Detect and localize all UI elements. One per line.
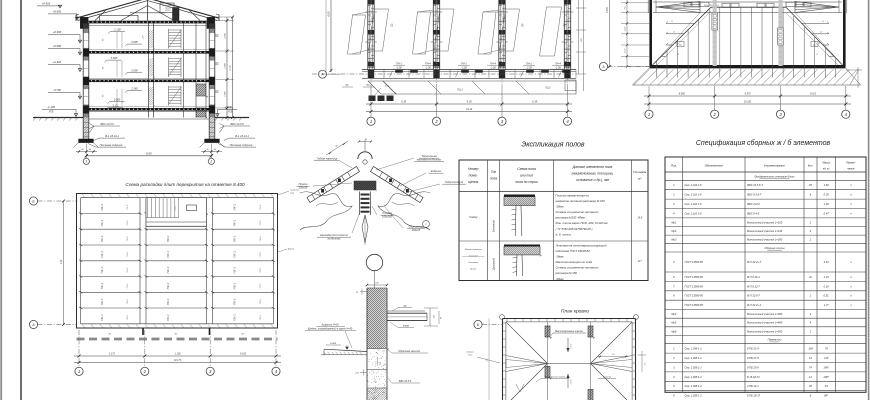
svg-text:19.14: 19.14 — [466, 108, 473, 111]
svg-text:Песчаная подушка: Песчаная подушка — [230, 143, 253, 147]
svg-text:6.38: 6.38 — [401, 101, 406, 104]
svg-text:ПК-1: ПК-1 — [233, 235, 237, 242]
svg-text:поме-: поме- — [469, 174, 479, 178]
rafter plan top funnel shapes — [656, 2, 700, 13]
svg-text:-2.08: -2.08 — [461, 66, 467, 69]
svg-text:ПК-1: ПК-1 — [233, 219, 237, 226]
ridge post with rungs — [359, 192, 361, 216]
svg-text:Тип: Тип — [491, 170, 497, 174]
rafter bar fine hatch left — [312, 194, 315, 199]
svg-text:подоснове ГОСТ 18108-80: подоснове ГОСТ 18108-80 — [556, 249, 591, 253]
rafter bar bolt squares left — [321, 189, 324, 193]
chimney with note text — [160, 3, 174, 13]
svg-text:щения: щения — [468, 180, 479, 184]
svg-text:раствора М 150: раствора М 150 — [555, 271, 578, 275]
svg-text:ПК-2: ПК-2 — [260, 267, 262, 273]
svg-text:ПК-2: ПК-2 — [260, 283, 262, 289]
svg-text:14,6: 14,6 — [637, 217, 642, 220]
ground line left — [33, 117, 83, 119]
ridge bolt plate dark block — [354, 181, 376, 190]
svg-text:Гидроизоляция: Гидроизоляция — [445, 180, 464, 184]
svg-text:Сер. 1.116.1-8: Сер. 1.116.1-8 — [685, 193, 703, 197]
svg-text:ПК-1: ПК-1 — [100, 267, 104, 274]
svg-text:ПН-1: ПН-1 — [526, 63, 532, 66]
svg-text:9 ПБ 21-8: 9 ПБ 21-8 — [747, 347, 759, 351]
svg-text:Водосточная труба: Водосточная труба — [545, 376, 567, 379]
svg-text:0.3С: 0.3С — [823, 294, 829, 298]
stair flights — [168, 29, 170, 49]
plan leader lines to walls — [352, 12, 368, 15]
svg-text:Слухов.: Слухов. — [466, 352, 474, 354]
svg-text:1.136: 1.136 — [175, 353, 182, 356]
svg-text:ПК-2: ПК-2 — [260, 204, 262, 210]
svg-text:ПК-2: ПК-2 — [260, 299, 262, 305]
chimney dashed strip on axis 2 — [713, 0, 717, 66]
svg-text:раствора М150: раствора М150 -40мм — [555, 216, 585, 220]
ridge vertical guide line — [364, 140, 366, 152]
svg-text:Спецификация сборных ж / б эле: Спецификация сборных ж / б элементов — [696, 139, 831, 147]
svg-text:2.100: 2.100 — [113, 28, 121, 32]
svg-text:1: 1 — [78, 369, 80, 374]
roof plan hip diagonals — [506, 322, 548, 364]
explication row 1 floor schema icon — [504, 195, 535, 197]
svg-text:-16мм: -16мм — [556, 255, 564, 259]
svg-text:ПН-4: ПН-4 — [425, 63, 431, 66]
plan walls on grid axes — [367, 0, 369, 70]
svg-text:ПК-1: ПК-1 — [100, 282, 104, 289]
svg-text:ПК-2: ПК-2 — [127, 267, 129, 273]
detail callout circle — [366, 254, 382, 270]
rafter vertical lines — [656, 61, 658, 78]
svg-text:ОК-2 ОК-2 ОК-3: ОК-2 ОК-2 ОК-3 — [704, 5, 720, 7]
slab plan grid bubbles 1-4 — [75, 367, 83, 375]
svg-text:-2.08: -2.08 — [396, 66, 402, 69]
svg-text:ПК-1: ПК-1 — [233, 298, 237, 305]
svg-text:Стяжка из цементно-песчаного: Стяжка из цементно-песчаного — [556, 266, 599, 270]
svg-text:накладка на болтах: накладка на болтах — [417, 157, 442, 161]
svg-text:6.600: 6.600 — [607, 6, 609, 12]
roof plan left vertical dimension — [488, 319, 490, 401]
specification rows — [665, 179, 866, 181]
attic floor slab — [82, 21, 213, 24]
svg-text:Б 16 аб-71: Б 16 аб-71 — [747, 375, 760, 379]
svg-text:ПК-1: ПК-1 — [166, 235, 170, 242]
roof slope arrows — [567, 338, 569, 352]
svg-text:0.47: 0.47 — [824, 211, 830, 215]
svg-text:2ст: 2ст — [384, 86, 389, 88]
central top boxes — [722, 3, 730, 7]
svg-text:ПК-2: ПК-2 — [127, 314, 129, 320]
basement interior ground level line — [89, 118, 209, 120]
svg-text:Щебень, утрамбованный в грунт: Щебень, утрамбованный в грунт Н=50 — [308, 327, 353, 330]
roof plan outer rectangle — [503, 318, 636, 320]
stair opening in middle bay — [146, 198, 207, 227]
wall T-marks at bottom edge — [142, 328, 144, 335]
svg-text:1: 1 — [85, 160, 87, 164]
masonry ticks along top and bottom walls — [82, 194, 85, 197]
svg-text:Монолитный участок L=100: Монолитный участок L=100 — [747, 220, 783, 224]
svg-text:УГВ: УГВ — [49, 111, 54, 114]
svg-text:Кол.: Кол. — [808, 164, 814, 168]
svg-text:ПК-2: ПК-2 — [127, 204, 129, 210]
svg-text:ПН-1: ПН-1 — [396, 63, 402, 66]
right rafter bar — [371, 167, 424, 203]
interior door jamb lines — [116, 32, 118, 49]
svg-text:ПН-4: ПН-4 — [555, 63, 561, 66]
right funnel dimension — [598, 356, 628, 358]
section right wall exterior sills — [215, 34, 219, 36]
svg-text:ФБС 24.5.6: ФБС 24.5.6 — [100, 122, 114, 126]
svg-text:ПК-1: ПК-1 — [166, 298, 170, 305]
right exterior wall with hatch — [208, 23, 210, 117]
bottom FBS block hatch — [366, 387, 368, 389]
left exterior wall with hatch — [82, 23, 84, 117]
hip diagonal right — [786, 7, 843, 65]
svg-text:ПК-1: ПК-1 — [100, 235, 104, 242]
rafter plan outer left dimension — [609, 0, 611, 67]
svg-text:Вентиляционные шахты: Вентиляционные шахты — [555, 331, 583, 333]
svg-text:1.173: 1.173 — [109, 353, 116, 356]
slab plan left dimension line — [63, 201, 65, 325]
svg-text:9 ПБ 27-8: 9 ПБ 27-8 — [747, 356, 759, 360]
svg-text:ФБС 24.5.6-Т: ФБС 24.5.6-Т — [747, 183, 763, 187]
svg-text:2.800: 2.800 — [225, 90, 227, 97]
svg-text:Му3: Му3 — [671, 238, 676, 242]
svg-text:ПК-1: ПК-1 — [233, 267, 237, 274]
svg-text:(Д): (Д) — [391, 23, 394, 27]
axis A dash-dot line of plan — [312, 73, 576, 75]
rafter plan left thick wall — [649, 0, 652, 67]
roof chimney crossing right slope — [173, 8, 180, 21]
sheet frame left edge line — [0, 0, 2, 400]
roof truss members — [147, 0, 149, 21]
svg-text:Монолитный участок L=480: Монолитный участок L=480 — [747, 321, 783, 325]
right cornice block — [207, 17, 215, 28]
svg-text:окно: окно — [468, 355, 473, 357]
plan bottom exterior wall band — [362, 69, 576, 71]
porch slabs parallelogram strip — [368, 81, 396, 94]
svg-text:Номер: Номер — [468, 167, 479, 171]
svg-text:5.111: 5.111 — [112, 104, 119, 108]
svg-text:100х100: 100х100 — [382, 214, 393, 218]
svg-text:-2.08: -2.08 — [490, 66, 496, 69]
svg-text:ПК-2: ПК-2 — [127, 283, 129, 289]
svg-text:( ТУ 5762-005-04756799-05 ): ( ТУ 5762-005-04756799-05 ) — [556, 227, 593, 231]
svg-text:Схема пола: Схема пола — [517, 167, 536, 171]
svg-text:Мин. плита марки ПСЖ -200, б=1: Мин. плита марки ПСЖ -200, б=120 мм — [556, 221, 608, 225]
svg-text:Сер. 1.038.1-1: Сер. 1.038.1-1 — [685, 375, 703, 379]
svg-text:Му4: Му4 — [671, 312, 676, 316]
right small dimension near eave — [846, 69, 862, 71]
sheet frame right edge line — [868, 0, 870, 400]
left hip funnel triangles — [506, 356, 548, 364]
plan grid bubbles 1-4 — [370, 114, 372, 118]
svg-text:751: 751 — [625, 6, 627, 9]
section axis bubble 2 — [208, 158, 214, 164]
svg-text:ПК-1: ПК-1 — [100, 204, 104, 211]
svg-text:9 ПБ 16-37: 9 ПБ 16-37 — [747, 393, 761, 397]
svg-text:ПК-2: ПК-2 — [127, 251, 129, 257]
svg-text:(Д): (Д) — [521, 23, 524, 27]
svg-text:ед. кг: ед. кг — [823, 168, 830, 171]
svg-text:ПК-2: ПК-2 — [260, 251, 262, 257]
svg-text:Поз.: Поз. — [671, 164, 677, 168]
svg-text:Ф-1 16.24-1: Ф-1 16.24-1 — [235, 134, 249, 138]
svg-text:Прогон: Прогон — [299, 182, 308, 186]
svg-text:6.512: 6.512 — [240, 353, 247, 356]
svg-text:Му2: Му2 — [671, 229, 676, 233]
svg-text:Перемычки: Перемычки — [768, 338, 782, 342]
svg-text:-1.135: -1.135 — [47, 105, 55, 109]
svg-text:(Д): (Д) — [563, 23, 566, 27]
svg-text:Экспликация полов: Экспликация полов — [521, 142, 584, 149]
detail FBS blocks below — [367, 348, 387, 350]
svg-text:Анкер: Анкер — [287, 248, 295, 251]
interior shaft walls — [183, 23, 185, 117]
svg-text:5.605: 5.605 — [131, 40, 138, 44]
ground line right — [215, 117, 249, 119]
svg-text:Монолитный участок L=140: Монолитный участок L=140 — [747, 229, 783, 233]
svg-text:Ф-1 16.24-1: Ф-1 16.24-1 — [105, 134, 119, 138]
rafter plan grid bubbles 1-4 — [648, 109, 650, 112]
svg-text:Тамбур: Тамбур — [469, 216, 478, 219]
svg-text:ПК-1: ПК-1 — [233, 251, 237, 258]
svg-text:Дощатый: Дощатый — [493, 258, 496, 271]
hip area horizontal jack rafters left — [666, 22, 694, 24]
svg-text:Обрешётка: Обрешётка — [409, 225, 424, 229]
svg-text:Монолитный участок L=300: Монолитный участок L=300 — [747, 312, 783, 316]
svg-text:Стойка: Стойка — [382, 211, 392, 215]
rafter plan right thick wall — [843, 0, 846, 67]
chimney dashed strip on axis 3 — [778, 0, 782, 66]
svg-text:Обозначение: Обозначение — [705, 164, 724, 168]
sheet frame inner margin line — [20, 0, 22, 400]
svg-text:Монолитный участок L=280: Монолитный участок L=280 — [747, 238, 783, 242]
svg-text:-2.08: -2.08 — [526, 66, 532, 69]
svg-text:ПК-1: ПК-1 — [233, 282, 237, 289]
detail wall top dimension — [360, 291, 367, 293]
basement floor slab — [89, 111, 209, 113]
left footing — [79, 139, 94, 143]
svg-text:основание и др.), мм: основание и др.), мм — [576, 178, 609, 182]
svg-text:7.30: 7.30 — [60, 259, 63, 264]
svg-text:Обратная засыпка: Обратная засыпка — [398, 350, 420, 353]
svg-text:+5.080: +5.080 — [53, 44, 62, 48]
svg-text:пола: пола — [490, 177, 497, 181]
svg-text:Гостиная: Гостиная — [468, 262, 479, 264]
svg-text:-30мм: -30мм — [556, 205, 564, 209]
svg-text:Сер. 1.038.1-1: Сер. 1.038.1-1 — [685, 384, 703, 388]
svg-text:ПК-2: ПК-2 — [127, 236, 129, 242]
svg-text:ПК-1: ПК-1 — [233, 314, 237, 321]
blind area left (otmostka) — [324, 349, 367, 351]
svg-text:108: 108 — [808, 347, 813, 351]
floor slabs — [89, 51, 209, 54]
svg-text:2: 2 — [209, 160, 212, 164]
svg-text:ПК-1: ПК-1 — [100, 314, 104, 321]
svg-text:ГОСТ 13580-85: ГОСТ 13580-85 — [685, 303, 704, 307]
slab plan outer wall rectangle — [77, 194, 278, 329]
svg-text:Ф-Л 8.26-1: Ф-Л 8.26-1 — [747, 275, 760, 279]
svg-text:6.38: 6.38 — [532, 101, 537, 104]
svg-text:Сер. 1.116.1-8: Сер. 1.116.1-8 — [685, 211, 703, 215]
slab plan axis bubble A — [29, 320, 37, 328]
svg-text:чание: чание — [847, 168, 855, 171]
svg-text:Ф-Л 32.2х-1: Ф-Л 32.2х-1 — [747, 303, 762, 307]
detail wall brick hatch — [366, 287, 368, 289]
eave band with hatching — [633, 84, 861, 86]
rafter plan dimension lines — [648, 86, 650, 110]
svg-text:ПК-2: ПК-2 — [127, 220, 129, 226]
svg-text:Фундаментные стеновые блоки: Фундаментные стеновые блоки — [754, 174, 795, 178]
svg-text:-40мм: -40мм — [556, 277, 564, 281]
svg-text:ГОСТ 13580-85: ГОСТ 13580-85 — [685, 294, 704, 298]
slab right end dimension — [429, 308, 431, 326]
rafter plan axis A bubble — [599, 62, 607, 70]
svg-text:+9.903: +9.903 — [42, 2, 51, 6]
detail mark circle c — [423, 221, 430, 228]
svg-text:5.805: 5.805 — [111, 56, 118, 60]
svg-text:Гибкая черепица: Гибкая черепица — [317, 157, 338, 161]
svg-text:ФБС 9.4.6: ФБС 9.4.6 — [747, 211, 760, 215]
plan axis bubble A — [319, 70, 327, 78]
svg-text:115: 115 — [824, 356, 829, 360]
ridge lower spike — [362, 215, 368, 243]
svg-text:План кровли: План кровли — [561, 309, 589, 315]
svg-text:3.000: 3.000 — [225, 32, 227, 38]
svg-text:ПН-4: ПН-4 — [490, 63, 496, 66]
svg-text:0.000: 0.000 — [114, 98, 121, 102]
svg-text:ФБС 24.5.6: ФБС 24.5.6 — [230, 122, 244, 126]
left cornice block — [80, 17, 88, 28]
svg-text:100х25: 100х25 — [412, 228, 421, 232]
svg-text:ПК-2: ПК-2 — [260, 314, 262, 320]
ridge line — [711, 6, 786, 8]
svg-text:1.30: 1.30 — [824, 202, 830, 206]
svg-text:2.805: 2.805 — [130, 69, 138, 73]
rafter bar bolt squares right — [406, 189, 409, 193]
svg-text:Треугольная: Треугольная — [421, 154, 437, 158]
svg-text:ПН-1: ПН-1 — [461, 63, 467, 66]
svg-text:1.63: 1.63 — [824, 183, 830, 187]
section axis bubble 1 — [83, 158, 89, 164]
slab plan axis bubble B — [29, 197, 37, 205]
svg-text:Ф-Л 32.2х-Т: Ф-Л 32.2х-Т — [747, 260, 762, 264]
svg-text:Монолитный участок L=550: Монолитный участок L=550 — [747, 329, 783, 333]
svg-text:Схема раскладки плит перекрыти: Схема раскладки плит перекрытия на отмет… — [125, 182, 245, 187]
svg-text:ПК-1: ПК-1 — [166, 314, 170, 321]
svg-text:6.570: 6.570 — [745, 93, 752, 96]
svg-text:Бетонный: Бетонный — [493, 219, 496, 232]
svg-text:Кухня: Кухня — [470, 269, 477, 271]
bottom thick dashed strip — [77, 338, 278, 341]
svg-text:117: 117 — [638, 260, 643, 263]
svg-text:ПК-1: ПК-1 — [100, 219, 104, 226]
svg-text:Му5: Му5 — [671, 321, 676, 325]
svg-text:6.00: 6.00 — [327, 11, 331, 17]
right hip funnel triangles — [591, 356, 633, 364]
svg-text:Сер. 1.038.1-1: Сер. 1.038.1-1 — [685, 356, 703, 360]
roof plan ridge line — [548, 363, 591, 365]
band vertical joint lines — [383, 70, 385, 79]
roof plan chimney axes verticals — [547, 322, 549, 400]
svg-text:1: 1 — [370, 119, 372, 124]
svg-text:Сборные плиты: Сборные плиты — [764, 246, 784, 250]
svg-text:6.00: 6.00 — [146, 152, 152, 156]
roof plan axis bubble B — [474, 320, 482, 328]
right vertical dimension chains — [216, 20, 234, 22]
svg-text:пола по серии: пола по серии — [515, 180, 537, 184]
svg-text:ПК-1: ПК-1 — [166, 282, 170, 289]
svg-text:+2.920: +2.920 — [53, 60, 62, 64]
svg-text:Ф-Л 32.8-7: Ф-Л 32.8-7 — [747, 294, 760, 298]
svg-text:ПС: ПС — [366, 85, 370, 87]
attic low walls — [99, 15, 101, 20]
basement walls — [82, 118, 84, 140]
explication table grid — [459, 160, 648, 281]
section bottom dimension line — [85, 144, 87, 159]
svg-text:Асфальт Н=20: Асфальт Н=20 — [320, 324, 339, 327]
svg-text:ФБС 24.5.6: ФБС 24.5.6 — [399, 380, 412, 383]
svg-text:+8.600: +8.600 — [53, 10, 62, 14]
svg-text:ПЦ-2: ПЦ-2 — [545, 88, 551, 90]
slab rows bay 1 — [81, 197, 140, 199]
left rafter bar — [307, 167, 360, 203]
slab plan interior walls — [139, 198, 141, 324]
svg-text:Сер. 1.038.1-1: Сер. 1.038.1-1 — [685, 365, 703, 369]
svg-text:+6.380: +6.380 — [53, 30, 62, 34]
svg-text:-2.08: -2.08 — [555, 66, 561, 69]
hip diagonal left — [653, 7, 712, 65]
svg-text:298*: 298* — [823, 375, 830, 379]
svg-text:19.162: 19.162 — [744, 101, 752, 104]
svg-text:3 ПБ 13-1: 3 ПБ 13-1 — [747, 384, 759, 388]
svg-text:150х50: 150х50 — [299, 185, 308, 189]
detail wall outline — [366, 288, 368, 400]
specification table outer frame — [665, 157, 866, 392]
svg-text:Линолеум на теплозвукоизолирую: Линолеум на теплозвукоизолирующей — [555, 244, 607, 248]
svg-text:Сер. 1.116.1-8: Сер. 1.116.1-8 — [685, 202, 703, 206]
roof slopes — [76, 0, 148, 18]
svg-text:Му1: Му1 — [671, 220, 676, 224]
svg-text:Стяжка из цементно-песчаного: Стяжка из цементно-песчаного — [556, 210, 599, 214]
svg-text:ГОСТ 13580-85: ГОСТ 13580-85 — [685, 284, 704, 288]
interior stair wall — [148, 23, 150, 117]
svg-text:2.380: 2.380 — [130, 87, 138, 91]
svg-text:Сер. 1.038.1-1: Сер. 1.038.1-1 — [685, 347, 703, 351]
slab plan bottom dimensions — [78, 330, 80, 367]
svg-text:ПК-1: ПК-1 — [100, 298, 104, 305]
svg-text:9.730: 9.730 — [230, 64, 232, 70]
roof plan border tick marks — [506, 319, 508, 321]
svg-text:6.080: 6.080 — [679, 93, 686, 96]
svg-text:9 ПБ 25-8: 9 ПБ 25-8 — [747, 365, 759, 369]
rafter plan left dimension ticks — [621, 2, 649, 4]
svg-text:ПС: ПС — [345, 85, 349, 87]
svg-text:6.38: 6.38 — [467, 101, 472, 104]
svg-text:19.173: 19.173 — [174, 359, 182, 362]
svg-text:Плитка керамическая на: Плитка керамическая на — [556, 194, 590, 198]
svg-text:Приме-: Приме- — [846, 161, 855, 165]
svg-text:цементно-песчаном растворе М 1: цементно-песчаном растворе М 150 — [556, 199, 606, 203]
porch small blocks with leaders — [369, 96, 376, 102]
plan left vertical dimension line — [330, 0, 332, 72]
left rafter dimension 50 — [326, 141, 348, 155]
svg-text:3.61: 3.61 — [824, 260, 830, 264]
svg-text:ж. б. плита: ж. б. плита — [555, 232, 572, 236]
ridge top arc — [358, 152, 372, 159]
detail floor slab right — [387, 310, 425, 312]
